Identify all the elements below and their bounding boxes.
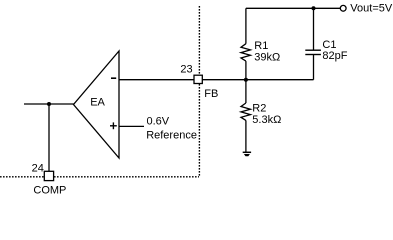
svg-text:0.6V: 0.6V <box>147 115 170 127</box>
svg-text:R1: R1 <box>254 40 268 52</box>
svg-text:5.3kΩ: 5.3kΩ <box>252 114 281 126</box>
svg-text:EA: EA <box>90 97 105 109</box>
svg-text:82pF: 82pF <box>322 50 347 62</box>
svg-text:Vout=5V: Vout=5V <box>350 3 393 15</box>
svg-text:COMP: COMP <box>33 184 66 196</box>
svg-text:23: 23 <box>180 63 192 75</box>
svg-text:R2: R2 <box>252 103 266 115</box>
svg-text:39kΩ: 39kΩ <box>254 51 280 63</box>
svg-text:C1: C1 <box>322 39 336 51</box>
svg-text:FB: FB <box>204 88 218 100</box>
svg-text:24: 24 <box>32 162 44 174</box>
svg-text:Reference: Reference <box>146 130 197 142</box>
